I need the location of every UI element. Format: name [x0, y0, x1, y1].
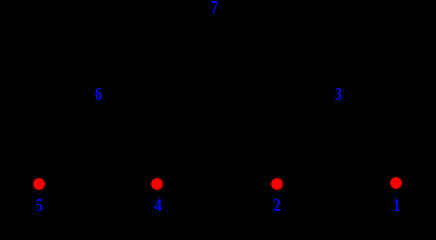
atom label C2	[273, 197, 281, 215]
atom label C3	[335, 86, 342, 104]
atom label C6	[95, 86, 102, 104]
radical dot at C4	[149, 176, 165, 192]
atom label C5	[36, 197, 43, 215]
atom label C1	[393, 197, 400, 215]
atom label C4	[154, 197, 162, 215]
radical dot at C5	[31, 176, 47, 192]
radical dot at C2	[269, 176, 285, 192]
atom label C7	[211, 0, 218, 17]
radical dot at C1	[388, 175, 404, 191]
